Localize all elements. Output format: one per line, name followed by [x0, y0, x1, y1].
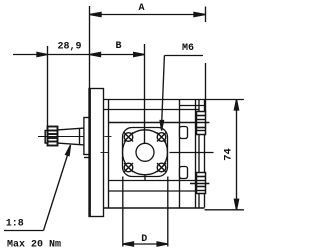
svg-text:Max 20 Nm: Max 20 Nm: [7, 240, 61, 250]
svg-text:D: D: [141, 234, 147, 245]
svg-text:1:8: 1:8: [6, 219, 24, 230]
svg-text:28,9: 28,9: [57, 41, 81, 52]
svg-text:B: B: [115, 41, 121, 52]
svg-text:74: 74: [222, 148, 234, 161]
svg-text:A: A: [138, 3, 144, 14]
svg-text:M6: M6: [182, 43, 194, 54]
